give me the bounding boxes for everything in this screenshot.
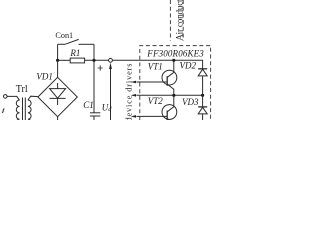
svg-text:R1: R1: [69, 48, 80, 58]
svg-text:FF300R06KE3: FF300R06KE3: [146, 48, 204, 58]
svg-text:VD1: VD1: [36, 72, 53, 82]
svg-text:device drivers: device drivers: [125, 64, 134, 121]
svg-text:Trl: Trl: [16, 84, 28, 95]
svg-text:C1: C1: [83, 100, 94, 110]
svg-text:Air conduction: Air conduction: [174, 0, 184, 41]
svg-text:VD2: VD2: [180, 61, 197, 71]
svg-text:VT1: VT1: [148, 62, 163, 72]
svg-text:VD3: VD3: [182, 97, 199, 107]
svg-text:VT2: VT2: [148, 96, 164, 106]
svg-text:Con1: Con1: [55, 31, 73, 40]
